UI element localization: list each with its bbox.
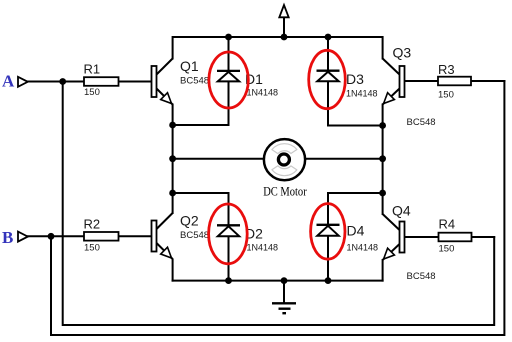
svg-text:A: A <box>2 72 15 91</box>
highlight ellipse around D4 <box>311 204 345 260</box>
wire: diode D3 branch vertical <box>327 37 329 126</box>
node: bottom rail / D2 <box>225 277 232 284</box>
wire: input B to R2 to Q2 base <box>28 235 152 237</box>
svg-text:1N4148: 1N4148 <box>247 243 279 253</box>
wire: bottom ground rail <box>173 280 383 282</box>
ground <box>272 281 296 314</box>
svg-text:150: 150 <box>84 242 100 253</box>
resistor R2 <box>84 217 119 254</box>
wire: D2 cathode to left node <box>173 192 229 194</box>
svg-text:150: 150 <box>438 89 454 100</box>
node: right node / D4 cathode <box>379 190 386 197</box>
wire: motor right lead <box>305 158 383 160</box>
svg-text:R1: R1 <box>84 62 101 77</box>
node: left node / D1 anode <box>169 122 176 129</box>
wire: Q3 base to R3 to right edge <box>405 80 505 82</box>
diode D3 <box>317 71 378 99</box>
resistor R3 <box>438 62 471 100</box>
input buffer triangle A <box>18 77 28 87</box>
transistor Q1 <box>152 58 210 105</box>
node: left node / D2 cathode <box>169 190 176 197</box>
svg-text:Q1: Q1 <box>180 58 199 74</box>
diode D4 <box>317 222 379 252</box>
node: B input junction <box>48 233 55 240</box>
node: top rail / power <box>281 34 288 41</box>
node: right node / motor <box>379 155 386 162</box>
wire: left bridge node vertical <box>172 105 174 214</box>
svg-text:BC548: BC548 <box>180 75 209 86</box>
highlight ellipse around D1 <box>209 52 248 108</box>
node: bottom rail / ground <box>281 277 288 284</box>
node: left node / motor <box>169 155 176 162</box>
svg-text:1N4148: 1N4148 <box>247 88 279 98</box>
svg-text:Q2: Q2 <box>180 213 199 229</box>
highlight ellipse around D3 <box>309 50 346 108</box>
svg-text:1N4148: 1N4148 <box>347 242 379 252</box>
transistor Q3 <box>383 45 436 129</box>
wire: power stem <box>283 18 285 38</box>
svg-text:Q4: Q4 <box>392 203 411 219</box>
resistor R4 <box>439 217 472 255</box>
transistor Q4 <box>383 203 436 283</box>
input buffer triangle B <box>18 232 28 242</box>
wire: input A to R1 to Q1 base <box>28 81 152 83</box>
svg-text:R4: R4 <box>439 217 456 232</box>
node: right node / D3 anode <box>379 122 386 129</box>
wire: Q4 base to R4 to right edge <box>405 236 495 238</box>
svg-text:BC548: BC548 <box>407 271 436 282</box>
wire: diode D4 branch vertical <box>327 193 329 281</box>
transistor Q2 <box>152 213 210 259</box>
diode D2 <box>217 225 278 252</box>
node: top rail / D3 <box>325 34 332 41</box>
svg-text:150: 150 <box>439 243 455 254</box>
svg-text:BC548: BC548 <box>407 117 436 128</box>
wire: Q4 emitter vertical to rail <box>382 260 384 281</box>
svg-text:D4: D4 <box>347 222 365 238</box>
svg-text:Q3: Q3 <box>393 45 412 61</box>
svg-text:R3: R3 <box>438 62 455 77</box>
wire: Q2 emitter vertical to rail <box>172 260 174 281</box>
svg-text:1N4148: 1N4148 <box>346 89 378 99</box>
wire: top supply rail <box>173 37 383 59</box>
wire: diode D1 branch vertical <box>228 37 230 125</box>
wire: D1 anode to left node <box>173 124 229 126</box>
DC motor M1 <box>263 139 307 198</box>
wire: feedback loop from node A down and around to R4 <box>63 82 495 326</box>
highlight ellipse around D2 <box>209 204 248 264</box>
svg-text:R2: R2 <box>84 217 101 232</box>
node: A input junction <box>59 78 66 85</box>
wire: right bridge node vertical <box>382 105 384 215</box>
svg-text:150: 150 <box>84 87 100 98</box>
diode D1 <box>217 71 278 98</box>
node: bottom rail / D4 <box>325 277 332 284</box>
resistor R1 <box>84 62 119 99</box>
wire: motor left lead <box>173 158 264 160</box>
svg-text:DC Motor: DC Motor <box>263 184 307 199</box>
power symbol (supply arrow) <box>279 5 288 17</box>
svg-text:BC548: BC548 <box>180 230 209 241</box>
svg-text:D3: D3 <box>346 71 364 87</box>
wire: feedback loop from node B down and around to R3 <box>51 81 504 335</box>
wire: D4 cathode to right node <box>328 192 383 194</box>
wire: D3 anode to right node <box>328 125 383 127</box>
svg-text:B: B <box>2 228 13 247</box>
node: top rail / D1 <box>225 34 232 41</box>
wire: diode D2 branch vertical <box>228 193 230 281</box>
